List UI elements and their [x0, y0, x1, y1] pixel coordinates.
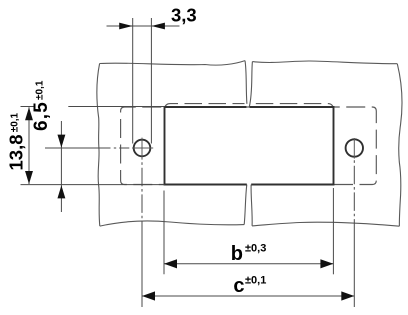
panel outline: bottom edge left segment: [100, 221, 244, 226]
svg-text:13,8: 13,8: [5, 134, 26, 170]
dim c arrow left: [142, 291, 155, 300]
left hole center line extension down (c reference): [141, 162, 143, 307]
dim b extension line left: [163, 191, 165, 275]
dim 3,3 extension line left: [132, 18, 134, 144]
panel cutout rectangle (solid): [165, 107, 334, 185]
dim 6,5 arrow up: [57, 185, 65, 198]
svg-text:c: c: [233, 275, 244, 297]
panel break line: top right: [249, 62, 252, 107]
svg-text:3,3: 3,3: [171, 4, 197, 25]
svg-text:±0,1: ±0,1: [34, 80, 45, 100]
right hole center line extension down (c reference): [353, 160, 355, 307]
right hole crosshair vertical: [353, 138, 355, 159]
dim 13,8 arrow up: [25, 107, 33, 120]
dim 3,3 extension line right: [150, 18, 152, 144]
svg-text:±0,1: ±0,1: [9, 112, 20, 132]
panel outline: bottom edge right segment: [252, 222, 399, 226]
panel outline: top edge left segment: [100, 61, 245, 66]
connector raised front edge (dashed) left part: [165, 104, 245, 110]
left hole crosshair horizontal: [132, 147, 153, 149]
dim c dimension line: [142, 295, 354, 297]
connector outline (dashed hidden contour): [121, 107, 377, 185]
dim 3,3 arrow right: [151, 23, 165, 30]
dim 3,3 arrow left: [119, 23, 133, 30]
dim 13,8 arrow down: [25, 171, 33, 184]
left hole crosshair vertical: [141, 138, 143, 160]
left hole center line extension to left dimension: [45, 147, 129, 149]
dim b arrow left: [164, 259, 177, 268]
panel break line: bottom left: [244, 185, 247, 225]
dim 6,5 dimension line: [60, 121, 62, 212]
dim b arrow right: [320, 259, 333, 268]
svg-text:±0,1: ±0,1: [245, 275, 266, 287]
dim c arrow right: [341, 291, 354, 300]
right mounting hole: [346, 139, 363, 156]
panel outline: top edge right segment: [252, 61, 397, 64]
panel break line: bottom right: [251, 185, 252, 226]
connector raised front edge (dashed) right part: [256, 104, 334, 110]
panel outline: left torn edge: [97, 64, 100, 227]
dim 6,5 arrow down: [57, 135, 65, 148]
svg-text:±0,3: ±0,3: [245, 243, 266, 255]
dim b dimension line: [164, 263, 333, 265]
svg-text:6,5: 6,5: [31, 101, 52, 131]
svg-text:b: b: [231, 243, 243, 265]
panel break line: top left: [245, 61, 247, 104]
dim 13,8 dimension line: [28, 107, 30, 184]
panel outline: right torn edge: [397, 64, 402, 227]
left dims: top extension line: [21, 106, 165, 108]
left dims: bottom extension line: [21, 184, 165, 186]
dim b extension line right: [332, 188, 334, 274]
dim 3,3 dimension line: [107, 25, 180, 27]
left mounting hole: [134, 140, 151, 157]
